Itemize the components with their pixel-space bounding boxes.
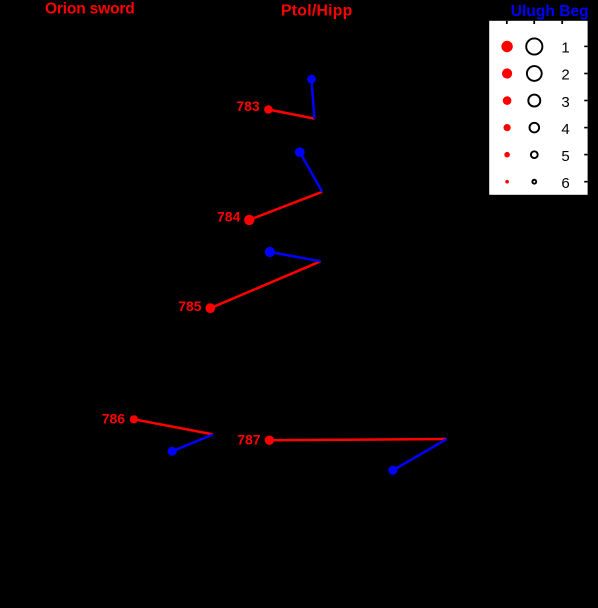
legend row 3 red dot: [503, 96, 512, 105]
legend right tick row 4: [584, 127, 587, 129]
star 783 blue point: [307, 75, 316, 84]
star 786 red line: [134, 419, 213, 434]
star 787 blue line: [393, 439, 447, 470]
legend box: [489, 21, 587, 195]
svg-text:5: 5: [561, 148, 569, 165]
svg-text:3: 3: [561, 94, 569, 111]
legend row 6 open circle: [532, 180, 536, 184]
legend right tick row 3: [584, 100, 587, 102]
star 786 blue point: [168, 447, 177, 456]
legend right tick row 2: [584, 73, 587, 75]
svg-text:787: 787: [237, 431, 261, 447]
star 785 blue point: [265, 247, 275, 257]
star 783 red point: [264, 105, 273, 114]
star 784 red point: [244, 215, 254, 225]
star 785 red line: [210, 261, 320, 308]
legend row 4 open circle: [530, 123, 540, 133]
svg-text:4: 4: [561, 121, 569, 138]
legend row 1 open circle: [526, 38, 542, 54]
legend row 4 red dot: [504, 124, 511, 131]
legend row 6 red dot: [505, 180, 509, 184]
star 787 blue point: [388, 466, 397, 475]
star 785 red point: [205, 303, 215, 313]
legend row 1 red dot: [501, 41, 512, 52]
star 785 blue line: [270, 252, 321, 261]
star 783 blue line (Ulugh Beg to modern): [312, 79, 315, 118]
svg-text:Ptol/Hipp: Ptol/Hipp: [281, 3, 353, 20]
star 787 red point: [265, 436, 274, 445]
star 783 red line (Ptol/Hipp to modern): [268, 110, 314, 119]
star 784 red line: [249, 192, 322, 220]
legend right tick row 5: [584, 154, 587, 156]
svg-text:784: 784: [217, 208, 241, 224]
svg-text:783: 783: [236, 98, 260, 114]
legend row 5 red dot: [504, 152, 510, 158]
star 784 blue point: [295, 147, 305, 157]
legend row 5 open circle: [531, 151, 538, 158]
star 787 red line: [269, 439, 446, 440]
legend right tick row 1: [584, 46, 587, 48]
legend row 2 open circle: [527, 66, 542, 81]
star 784 blue line: [300, 152, 322, 192]
legend row 3 open circle: [528, 95, 540, 107]
legend top tick 1: [506, 21, 508, 24]
svg-text:6: 6: [561, 175, 569, 192]
legend top tick 3: [561, 21, 563, 24]
star 786 blue line: [172, 434, 213, 451]
svg-text:2: 2: [561, 67, 569, 84]
svg-text:1: 1: [561, 40, 569, 57]
svg-text:Orion sword: Orion sword: [45, 1, 135, 18]
legend top tick 2: [533, 21, 535, 24]
legend right tick row 6: [584, 181, 587, 183]
legend row 2 red dot: [502, 68, 512, 78]
star 786 red point: [130, 415, 138, 423]
svg-text:785: 785: [178, 298, 202, 314]
svg-text:786: 786: [102, 410, 126, 426]
svg-text:Ulugh Beg: Ulugh Beg: [511, 3, 589, 20]
